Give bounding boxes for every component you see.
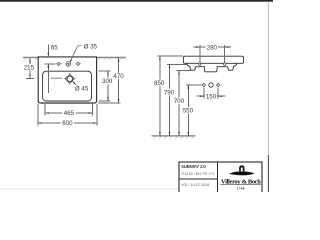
drain hole symbol Ø45	[65, 74, 74, 83]
wordmark underline	[221, 184, 261, 186]
water supply connections on wall	[202, 83, 205, 86]
svg-text:215: 215	[24, 65, 35, 72]
dimension 150 (supply distance)	[203, 88, 205, 99]
extension line apron bottom (700)	[177, 70, 191, 72]
svg-text:1748: 1748	[237, 187, 245, 191]
svg-text:V02 / 14.12.2018: V02 / 14.12.2018	[181, 183, 209, 187]
extension line fixing holes level (790)	[167, 63, 186, 65]
top border line of sheet	[0, 0, 273, 2]
tap hole row: left diamond	[57, 62, 60, 65]
svg-text:300: 300	[102, 78, 113, 85]
svg-text:150: 150	[206, 93, 217, 100]
Villeroy & Boch logo emblem: banner swoosh	[229, 171, 254, 175]
right fixing hole	[224, 63, 226, 65]
dimension 790	[169, 64, 171, 135]
label Ø35 with leader	[70, 46, 78, 63]
faint bottom sheet line	[0, 188, 179, 191]
svg-text:700: 700	[174, 98, 185, 105]
basin rim band (front view)	[183, 56, 243, 63]
washbasin outer rim (top view)	[38, 57, 96, 103]
apron / underside profile	[186, 63, 237, 72]
dimension 215 (wall to drain centre)	[29, 58, 31, 78]
title block vertical divider	[216, 162, 218, 192]
floor hatch ticks	[154, 137, 156, 139]
svg-text:65: 65	[51, 45, 58, 52]
extension line basin top (850)	[158, 55, 183, 57]
tap hole row: centre hole Ø35	[66, 62, 71, 67]
svg-text:470: 470	[113, 73, 124, 80]
svg-text:550: 550	[183, 107, 194, 114]
svg-text:600: 600	[62, 120, 73, 127]
dimension 600 (outer width)	[37, 104, 39, 126]
dimension 550	[187, 85, 189, 136]
dimension 300 (bowl depth)	[98, 70, 110, 72]
wall hatch ticks	[24, 56, 26, 59]
left fixing hole	[199, 63, 201, 65]
svg-text:465: 465	[64, 110, 75, 117]
label Ø45 with leader	[72, 81, 76, 85]
right frame border	[268, 2, 269, 192]
svg-text:SUBWAY 2.0: SUBWAY 2.0	[181, 164, 206, 169]
Villeroy & Boch logo emblem: arch	[239, 165, 244, 171]
svg-text:7113 60 / BH / FE / F1: 7113 60 / BH / FE / F1	[181, 172, 215, 176]
title block horizontal divider	[179, 178, 217, 180]
dimension 850	[159, 56, 161, 136]
svg-text:Ø 35: Ø 35	[84, 44, 98, 51]
extension line supply level (550)	[186, 84, 202, 86]
inner basin bowl	[43, 71, 92, 101]
dimension 700	[178, 71, 180, 136]
svg-text:280: 280	[207, 44, 218, 51]
title block frame	[179, 162, 262, 196]
svg-text:Ø 45: Ø 45	[75, 85, 89, 92]
overflow marking	[51, 77, 62, 79]
dimension 280 (fixing holes distance)	[199, 45, 201, 63]
floor line	[152, 135, 196, 137]
dimension 65 (wall to tap row)	[47, 45, 49, 57]
wall line (top view)	[23, 57, 126, 59]
dimension 465 (inner width)	[44, 104, 46, 116]
svg-text:790: 790	[164, 89, 175, 96]
svg-text:850: 850	[154, 80, 165, 87]
dimension 470 (basin depth)	[98, 102, 120, 104]
tap hole row: right diamond	[76, 62, 79, 65]
